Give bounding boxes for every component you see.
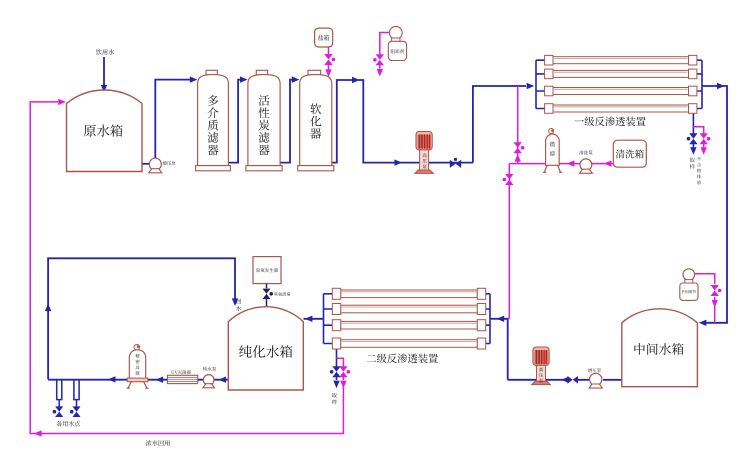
wire: RO1 concentrate drop — [692, 114, 694, 148]
dosing bottle: antiscalant 阻垢剂 — [389, 26, 402, 39]
wire: raw tank outlet to booster pump P1 — [142, 163, 150, 165]
wire: softener outlet over-and-down to HP pump line — [332, 80, 473, 163]
filter vessel cap — [206, 70, 217, 75]
label: 回水 return water — [237, 299, 242, 304]
wire: cleaning drop to RO2 feed — [508, 164, 510, 319]
valve V11 use point A — [55, 406, 63, 417]
valve V9 RO2 concentrate (magenta) — [339, 366, 347, 377]
valve V2 on antiscalant line — [376, 54, 384, 65]
wire: pure tank outlet main distribution line — [48, 379, 228, 381]
wire: riser to RO1 feed header — [473, 86, 526, 163]
wire: RO1 permeate to intermediate tank — [702, 86, 727, 323]
label: 饮用水 — [96, 49, 114, 55]
valve V13 PH dosing — [711, 285, 719, 296]
valve V3 on RO1 feed line — [450, 160, 461, 168]
tank: raw water tank 原水箱 — [67, 90, 143, 172]
vessel: precision filter 精密过滤 — [134, 344, 140, 350]
label: 浓水回用 — [146, 440, 170, 446]
label: 二级反渗透装置 — [367, 354, 438, 364]
RO unit 2: membrane tube 2 — [341, 305, 478, 313]
valve V6 cleaning riser — [514, 142, 522, 153]
pump P1 booster 增压泵 — [149, 158, 161, 170]
valve V7 cleaning drop — [505, 174, 513, 185]
tank: cleaning tank 清洗箱 — [613, 140, 646, 167]
wire: cleaning riser to RO1 feed — [517, 86, 519, 163]
wire: pump P1 riser to multi-media filter inlet — [155, 80, 191, 159]
wire: filter F1 outlet to filter F2 inlet — [229, 80, 241, 163]
filter vessel cap — [308, 70, 321, 75]
pump P2 high-pressure pump RO1 高压泵 — [416, 132, 432, 150]
pump P4 high-pressure pump RO2 高压泵 — [533, 347, 549, 365]
wire: use-point stub B — [74, 379, 79, 406]
wire: return loop riser / top run / drop into pure tank — [48, 258, 235, 379]
wire: HP pump riser to RO2 right manifold — [497, 319, 508, 380]
filter vessel body — [198, 75, 229, 166]
valve V1 on salt dosing line — [324, 54, 332, 65]
valve V12 use point B — [72, 406, 80, 417]
filter vessel body — [248, 75, 280, 166]
filter vessel cap — [256, 70, 267, 75]
valve V4 RO1 sample (blue) — [689, 133, 697, 144]
valve V14 on RO2 feed line — [567, 376, 578, 384]
wire: cleaning loop main (tank-pump-microfilter) — [509, 163, 613, 165]
filter base flange — [298, 166, 334, 171]
RO unit 1: membrane tube 4 — [553, 105, 689, 112]
wire: RO2 right manifold — [486, 294, 491, 344]
filter base flange — [196, 166, 231, 171]
wire: drinking-water inlet to raw tank — [103, 57, 105, 85]
RO unit 2: membrane tube 4 — [341, 340, 478, 348]
wire: RO2 sampling drop — [336, 349, 338, 380]
filter base flange — [246, 166, 282, 171]
valve V5 RO1 reject (magenta) — [700, 133, 708, 144]
wire: ozone generator feed into pure tank — [266, 284, 268, 307]
tank: salt box 盐箱 — [315, 28, 333, 47]
label: 一级反渗透装置 — [574, 117, 645, 127]
dosing bottle: PH adjust PH调节 — [683, 269, 695, 281]
wire: intermediate tank outlet to HP pump P4 — [508, 379, 622, 381]
UV sterilizer ＵＶ灭菌器 — [167, 375, 197, 383]
RO unit 1: membrane tube 3 — [553, 88, 689, 95]
wire: PH dosing line — [695, 274, 715, 323]
tank: purified water tank 纯化水箱 — [228, 307, 303, 390]
RO unit 2: membrane tube 3 — [341, 321, 478, 329]
wire: RO2 left manifold — [324, 294, 333, 344]
wire: RO1 left manifold — [536, 60, 545, 108]
label: 各用水点 — [56, 421, 80, 427]
wire: RO2 concentrate return to raw tank — [30, 102, 343, 434]
valve V8 RO2 sample (blue) — [332, 366, 340, 377]
RO unit 2: membrane tube 1 — [341, 290, 478, 298]
wire: RO1 reject branch — [693, 127, 703, 148]
valve V10 ozone line — [263, 289, 271, 300]
filter vessel body — [300, 75, 332, 166]
pump P5 pure water pump 纯水泵 — [203, 375, 214, 386]
wire: filter F2 outlet to softener inlet — [280, 80, 292, 163]
RO unit 1: membrane tube 1 — [553, 57, 689, 64]
wire: salt box dosing line into softener — [328, 47, 330, 70]
tank: intermediate water tank 中间水箱 — [622, 309, 698, 387]
pump P6 booster 增压泵 (intermediate tank) — [590, 373, 602, 385]
wire: RO1 right manifold — [697, 60, 702, 108]
wire: use-point stub A — [57, 379, 62, 406]
wire: RO2 permeate to purified water tank — [304, 318, 324, 320]
pump P3 cleaning pump 清洗泵 — [580, 159, 592, 171]
vessel: microfilter 微滤 — [549, 129, 554, 134]
wire: antiscalant dosing line — [380, 33, 391, 69]
box: ozone generator 臭氧发生器 — [253, 257, 281, 284]
RO unit 1: membrane tube 2 — [553, 70, 689, 77]
